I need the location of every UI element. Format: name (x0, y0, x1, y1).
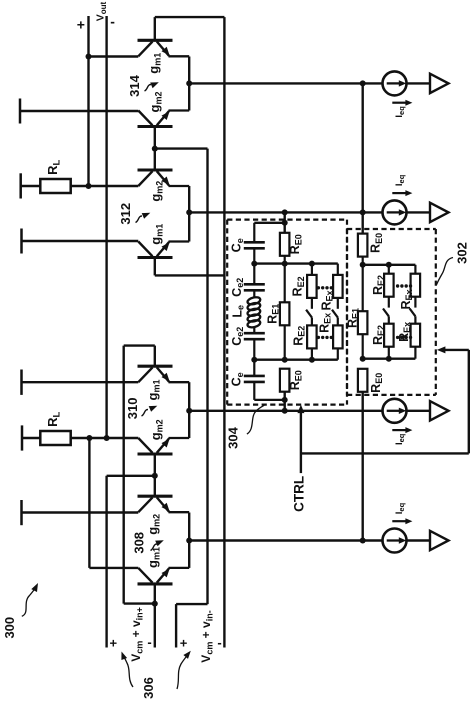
wire row4 (189, 539, 382, 541)
svg-text:308: 308 (131, 532, 146, 554)
node 308 emitters (186, 538, 192, 544)
wire rail segment down-left (88, 438, 90, 568)
label Ieq2 (392, 192, 405, 194)
wire CTRL to 302 (444, 349, 469, 351)
wire 304 row D (254, 359, 337, 361)
wire Vout- rail (105, 16, 107, 438)
node RL2/rail- (104, 435, 110, 441)
dashed box 304 (227, 219, 347, 221)
resistor RE0 (302 top) (358, 234, 368, 257)
wire Q312 emitter column (188, 186, 190, 242)
wire 302 entry (362, 212, 364, 233)
node D-RE2 (309, 357, 315, 363)
wire Q308 emitter column (188, 513, 190, 568)
resistor RL1 (40, 179, 70, 193)
terminal T1 bar (19, 99, 22, 124)
resistor RE1 (302) (358, 311, 368, 334)
wire Q310 gm1 base (154, 346, 156, 367)
wire Ce3 bottom elbow (253, 382, 255, 400)
capacitor Ce2 (lower) (244, 332, 265, 335)
leader 310 (142, 410, 149, 417)
arrow CTRL to 304 (297, 405, 304, 414)
svg-text:306: 306 (141, 677, 156, 699)
wire RE1 302 bottom stub (362, 334, 364, 359)
wire Q312 gm1 base (154, 258, 156, 276)
wire input2+ stub (175, 604, 177, 647)
terminal T2 bar (RL1) (19, 173, 22, 198)
resistor RL2 (40, 431, 70, 445)
svg-text:302: 302 (455, 242, 470, 264)
wire RE2a top stub (311, 264, 313, 275)
wire Q310gm2-Q308gm2 base link (154, 454, 156, 496)
node row1 x362 (360, 80, 366, 86)
resistor RE0 (304 bottom) (280, 369, 290, 392)
transistor Q308 gm2 (138, 495, 173, 498)
wire 302 row C (363, 264, 416, 266)
wire input1+ to base node (107, 475, 155, 477)
resistor RE2 (304 upper) (307, 275, 317, 298)
ellipsis dots 302 upper (396, 284, 399, 287)
wire Q314 gm1 base (154, 17, 156, 40)
transistor Q314 gm1 (138, 39, 173, 42)
wire Ce3 top stub (253, 360, 255, 376)
wire CTRL stem (300, 410, 302, 473)
svg-text:304: 304 (226, 426, 241, 448)
svg-text:300: 300 (2, 617, 17, 639)
terminal T4 bar (20, 370, 23, 395)
wire RE2b bottom stub (311, 348, 313, 359)
wire Q314 emitter column (188, 57, 190, 111)
transistor Q310 gm1 (138, 365, 173, 368)
wire 304 top link (254, 222, 284, 224)
wire bus2 top elbow (155, 16, 225, 18)
wire Q312 gm1 base elbow (155, 274, 225, 276)
wire RE0 302 stub (362, 257, 364, 265)
wire T1 collector row (20, 110, 138, 112)
node Vout junction (86, 54, 92, 60)
wire rowB (189, 410, 382, 412)
ellipsis dots 304 lower (317, 336, 320, 339)
wire Le-Ce2b stub (253, 327, 255, 333)
node base Q310gm2/Q308gm2 (152, 473, 158, 479)
node C2-RE1 (360, 262, 366, 268)
node base Q314gm2/Q312gm2 (152, 146, 158, 152)
current source Ieq3 (383, 399, 407, 423)
svg-text:312: 312 (118, 203, 133, 225)
node RL2/segment (86, 435, 92, 441)
resistor REx (304 upper) (333, 275, 343, 298)
leader 306 to input1 (123, 655, 133, 688)
wire T4 collector row (22, 381, 139, 383)
ellipsis dots 302 lower (396, 336, 399, 339)
svg-text:310: 310 (125, 398, 140, 420)
switch S1 (304) (311, 298, 313, 309)
wire Vout+ to Q314 gm1 collector (89, 55, 139, 57)
wire REx top elbow (337, 264, 339, 275)
wire input1- lower link (124, 602, 155, 604)
node C-RE2 (309, 261, 315, 267)
wire Ce1 top stub (253, 223, 255, 243)
node D-Le (251, 357, 257, 363)
svg-text:+: + (180, 636, 188, 651)
wire T6 collector row (22, 511, 139, 513)
wire Ce2a top stub (253, 264, 255, 285)
leader 308 (151, 544, 158, 551)
transistor Q312 gm2 (138, 168, 173, 171)
transistor Q314 gm2 (138, 125, 173, 128)
node D2-RE2 (386, 356, 392, 362)
current source Ieq1 (383, 71, 407, 95)
leader 302 (436, 258, 453, 286)
wire RE1 top stub (284, 264, 286, 303)
inductor Le (247, 296, 261, 306)
wire Ce2b bottom stub (253, 339, 255, 360)
resistor RE2 (302 upper) (384, 274, 394, 297)
wire input2+ elbow (176, 603, 207, 605)
terminal T6 bar (20, 500, 23, 525)
wire segment to Q308 gm1 collector (89, 567, 138, 569)
label Ieq3 (392, 429, 405, 431)
svg-text:-: - (147, 635, 151, 650)
capacitor Ce (top) (244, 241, 265, 244)
resistor REx (302 upper) (411, 274, 421, 297)
wire Ce2a-Le stub (253, 290, 255, 297)
transistor Q312 gm1 (138, 256, 173, 259)
node 304 exit (282, 408, 288, 414)
resistor RE2 (304 lower) (307, 325, 317, 348)
wire CTRL riser (468, 350, 470, 454)
transistor Q310 gm2 (138, 452, 173, 455)
leader 304 (247, 405, 264, 434)
switch S1 (302) (388, 297, 390, 308)
current source Ieq4 (383, 529, 407, 553)
terminal T3 bar (20, 229, 23, 254)
dashed box 302 (347, 228, 436, 230)
wire rowA (189, 211, 382, 213)
node 304 inner top (282, 220, 288, 226)
transistor Q308 gm1 (138, 582, 173, 585)
wire 304 exit (284, 392, 286, 411)
wire T2 to RL1 (21, 185, 41, 187)
svg-text:314: 314 (127, 74, 142, 96)
wire link row1-rowA (362, 83, 364, 212)
capacitor Ce (bottom) (244, 375, 265, 378)
ellipsis dots 304 upper (317, 286, 320, 289)
node C-Le (251, 261, 257, 267)
node D2-RE1 (360, 356, 366, 362)
node 310 emitters (186, 408, 192, 414)
wire RE1 302 top stub (362, 265, 364, 311)
wire input1- stub (154, 604, 156, 648)
resistor REx (302 lower) (411, 324, 421, 347)
label Ieq1 (392, 102, 405, 104)
terminal T5 bar (RL2) (21, 425, 24, 450)
node RL1/rail+ (86, 183, 92, 189)
wire 304 entry (284, 212, 286, 232)
node 304 inner bottom (282, 397, 288, 403)
node 304 entry (282, 209, 288, 215)
node 314 emitters (186, 80, 192, 86)
wire Q310 gm1 base elbow (124, 344, 155, 346)
wire Vout+ rail (87, 16, 89, 186)
leader 300 (22, 588, 36, 616)
wire CTRL horizontal (301, 452, 469, 454)
wire 302 row D (363, 358, 416, 360)
wire Q310 emitter column (188, 382, 190, 438)
wire Q308 gm1 base (154, 584, 156, 604)
svg-text:+: + (110, 636, 118, 651)
resistor RE2 (302 lower) (384, 324, 394, 347)
node C-RE1 (282, 261, 288, 267)
wire RL2 to rail (71, 437, 139, 439)
label Ieq4 (392, 520, 405, 522)
wire RExb bottom stub (337, 348, 339, 359)
wire RExb 302 stub (414, 347, 416, 359)
node D-RE1 (282, 357, 288, 363)
resistor REx (304 lower) (333, 325, 343, 348)
arrow CTRL to 302 (437, 346, 446, 353)
wire Q314gm2-Q312gm2 base link (154, 127, 156, 171)
leader 314 (145, 85, 152, 92)
resistor RE0 (302 bottom) (358, 369, 368, 392)
switch S2 (304) (337, 298, 339, 309)
resistor RE1 (304) (280, 302, 290, 325)
node input1- junction (152, 601, 158, 607)
wire T3 collector row (22, 240, 139, 242)
wire bus1 (input2+) (206, 149, 208, 604)
leader 312 (136, 216, 143, 223)
capacitor Ce2 (upper) (244, 283, 265, 286)
wire 302 exit to row4 (362, 392, 364, 541)
node 312 emitters (186, 209, 192, 215)
wire RE0-1 stub (284, 256, 286, 264)
resistor RE0 (304 top) (280, 233, 290, 256)
node 302 exit (360, 538, 366, 544)
wire RE2a 302 stub (388, 265, 390, 274)
wire input1- riser (122, 346, 124, 604)
svg-text:-: - (110, 14, 115, 30)
wire bus1 top elbow (155, 147, 208, 149)
wire RE2b 302 stub (388, 347, 390, 359)
wire input1+ riser (105, 476, 107, 648)
node rowA x362 (360, 209, 366, 215)
wire 304 row C (254, 262, 337, 264)
wire bus2 (input2-) (223, 17, 225, 647)
wire Ce1 bottom stub (253, 248, 255, 263)
switch S2 (302) (414, 297, 416, 308)
wire row1 (189, 82, 382, 84)
node C2-RE2 (386, 262, 392, 268)
current source Ieq2 (383, 200, 407, 224)
svg-text:-: - (217, 635, 221, 650)
wire REx 302 elbow (414, 265, 416, 274)
svg-text:CTRL: CTRL (292, 476, 307, 512)
svg-text:+: + (77, 17, 85, 33)
leader 306 to input2 (177, 654, 189, 689)
wire T5 to RL2 (22, 437, 40, 439)
wire RE1 bottom stub (284, 325, 286, 359)
wire RL1 to rail (71, 185, 139, 187)
